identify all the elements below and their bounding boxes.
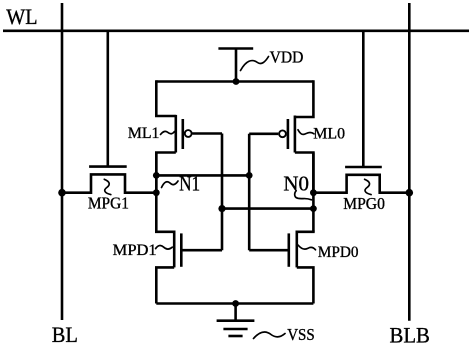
leader squiggle VSS <box>254 332 286 338</box>
leader squiggle MPD1 <box>156 245 173 249</box>
leader squiggle VDD <box>241 57 269 71</box>
wire ML1 gate to cross vertical <box>192 132 222 135</box>
transistor MPD1 gate bar <box>180 233 183 266</box>
wire cross-couple horizontal B from left gates to N0 <box>222 207 313 210</box>
wire VDD stem <box>235 49 238 82</box>
transistor MPD0 source lead <box>297 267 314 303</box>
transistor ML0 drain lead <box>295 153 314 194</box>
op-amp bubble: ML1 gate bubble <box>185 130 192 137</box>
leader squiggle N1 <box>162 181 179 188</box>
node N0 junction dot <box>310 189 317 196</box>
wire cross-couple vertical right (gates of ML0 and MPD0) <box>248 134 251 250</box>
svg-text:N0: N0 <box>283 171 309 195</box>
node junction dot wire B at left cross vertical <box>218 205 225 212</box>
wire MPG1 gate lead from WL <box>107 31 110 167</box>
wire ML0 gate to cross vertical <box>249 133 278 136</box>
leader squiggle N0 <box>295 191 312 200</box>
svg-text:MPD0: MPD0 <box>318 244 359 261</box>
leader squiggle ML1 <box>161 131 175 134</box>
node junction dot wire A at right cross vertical <box>246 172 253 179</box>
transistor MPG0 gate bar <box>345 166 382 169</box>
node junction dot VDD <box>233 78 240 85</box>
node junction dot BL/MPG1 <box>58 189 66 197</box>
svg-text:N1: N1 <box>179 171 200 195</box>
wire right inverter output N0 vertical <box>312 153 315 232</box>
transistor ML0 source lead <box>295 80 314 117</box>
svg-text:ML1: ML1 <box>128 125 160 142</box>
svg-text:MPG0: MPG0 <box>343 194 385 213</box>
wire WL horizontal rail <box>3 29 469 32</box>
svg-text:VDD: VDD <box>270 48 304 67</box>
wire VSS stem <box>234 304 237 321</box>
transistor ML1 channel bar <box>175 115 178 153</box>
wire BLB vertical line <box>408 3 411 321</box>
transistor ML1 source lead <box>156 80 176 116</box>
transistor ML1 gate bar <box>182 119 185 149</box>
wire left inverter output N1 vertical <box>155 153 158 232</box>
wire VSS rail <box>156 302 313 305</box>
svg-text:VSS: VSS <box>287 325 315 344</box>
transistor MPG1 channel and source/drain wire BL to N1 <box>63 174 156 192</box>
transistor MPD0 drain lead <box>297 231 314 232</box>
transistor MPD0 gate bar <box>287 233 290 266</box>
ground bar 3 <box>228 335 242 338</box>
transistor MPD1 source lead <box>156 267 174 303</box>
ML0 gate bubble <box>279 130 286 137</box>
node junction dot BLB/MPG0 <box>406 189 414 197</box>
transistor MPD1 channel bar <box>173 231 176 268</box>
power VDD bar <box>218 47 253 50</box>
node junction dot wire B at N0 line <box>310 205 317 212</box>
svg-text:MPD1: MPD1 <box>113 242 157 259</box>
transistor ML1 drain lead <box>156 153 176 194</box>
svg-text:ML0: ML0 <box>313 126 345 143</box>
transistor MPD0 channel bar <box>295 231 298 268</box>
transistor MPD1 drain lead <box>156 231 174 232</box>
ground bar 1 <box>217 319 255 322</box>
node N1 junction dot <box>153 189 160 196</box>
node junction dot wire A at N1 line <box>153 172 160 179</box>
svg-text:BLB: BLB <box>390 322 430 346</box>
wire cross-couple horizontal A from N1 to right gates <box>156 174 249 177</box>
leader squiggle ML0 <box>298 130 314 135</box>
transistor ML0 gate bar <box>287 119 290 149</box>
wire cross-couple vertical left (gates of ML1 and MPD1) <box>221 134 224 251</box>
leader squiggle MPG1 <box>104 179 111 194</box>
leader squiggle MPD0 <box>298 245 316 250</box>
leader squiggle MPG0 <box>365 179 372 194</box>
wire MPD0 gate to cross vertical <box>249 249 289 252</box>
transistor MPG0 channel and source/drain wire N0 to BLB <box>313 175 408 193</box>
svg-text:MPG1: MPG1 <box>88 194 129 213</box>
transistor ML0 channel bar <box>294 116 297 153</box>
svg-text:BL: BL <box>52 322 78 346</box>
wire MPD1 gate to cross vertical <box>181 249 222 252</box>
wire BL vertical line <box>61 3 64 320</box>
transistor MPG1 gate bar <box>89 165 127 168</box>
node junction dot VSS <box>232 300 239 307</box>
wire VDD rail <box>156 80 313 83</box>
svg-text:WL: WL <box>6 4 37 29</box>
ground bar 2 <box>223 328 247 331</box>
wire MPG0 gate lead from WL <box>362 31 365 167</box>
